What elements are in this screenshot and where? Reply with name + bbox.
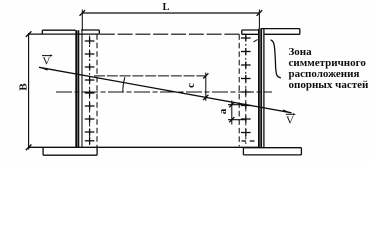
svg-text:опорных частей: опорных частей: [289, 79, 370, 91]
svg-text:c: c: [185, 83, 197, 88]
svg-text:V: V: [286, 114, 294, 126]
svg-text:V: V: [43, 56, 51, 68]
svg-text:a: a: [217, 108, 229, 114]
svg-text:B: B: [18, 83, 30, 91]
svg-text:L: L: [162, 2, 169, 13]
